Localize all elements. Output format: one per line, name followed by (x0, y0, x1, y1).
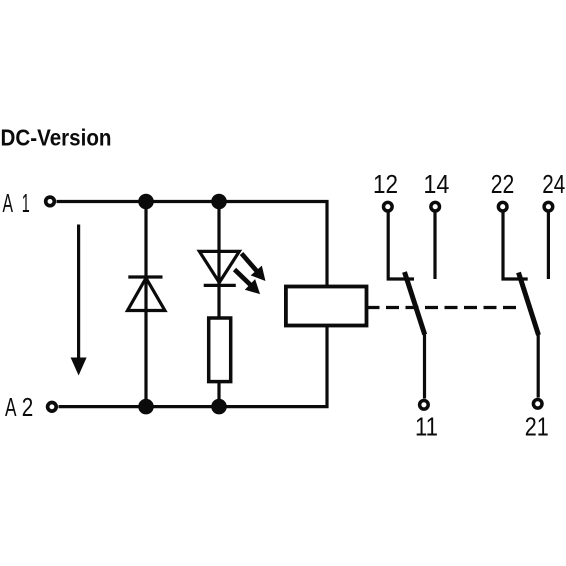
junction dot bottom-left (138, 399, 154, 415)
svg-text:21: 21 (525, 412, 549, 442)
svg-text:11: 11 (415, 412, 438, 442)
terminal 22 (498, 202, 507, 211)
contact blade 1 (405, 272, 425, 335)
terminal A2 (48, 403, 57, 412)
svg-text:A: A (3, 188, 14, 218)
relay coil K1 (286, 287, 367, 326)
terminal 11 (420, 401, 429, 410)
contact blade 2 (519, 273, 539, 336)
diode V1 cathode bar (128, 275, 162, 278)
dashed actuation link (367, 306, 518, 309)
junction dot top-left (138, 194, 154, 210)
LED cathode bar (204, 284, 236, 287)
wire diode branch (144, 202, 147, 407)
svg-text:12: 12 (373, 169, 398, 199)
diode V1 triangle (128, 278, 165, 311)
terminal 12 (384, 202, 393, 211)
resistor R1 (209, 318, 231, 382)
svg-text:22: 22 (491, 169, 515, 199)
terminal 24 (544, 202, 553, 211)
terminal A1 (46, 197, 55, 206)
svg-text:A: A (5, 392, 17, 422)
wire contact 21 (537, 334, 540, 398)
terminal 14 (431, 202, 440, 211)
wire contact 24 (547, 213, 550, 280)
LED triangle (199, 251, 239, 282)
wire contact 11 (423, 333, 426, 399)
wire LED branch upper (217, 202, 220, 319)
polarity arrow (71, 225, 87, 376)
wire contact 22 (503, 213, 528, 280)
wire top rail A1 (57, 202, 328, 287)
svg-text:2: 2 (22, 392, 34, 422)
wire bottom rail A2 (59, 326, 328, 407)
wire contact 14 (433, 213, 436, 280)
junction dot bottom-right (211, 399, 227, 415)
svg-text:24: 24 (542, 169, 565, 199)
svg-text:DC-Version: DC-Version (1, 125, 112, 151)
svg-text:14: 14 (423, 169, 449, 199)
LED emission arrow lower (229, 264, 265, 299)
svg-text:1: 1 (22, 188, 30, 218)
LED emission arrow upper (236, 249, 271, 286)
wire contact 12 (388, 213, 414, 280)
junction dot top-right (211, 194, 227, 210)
wire LED branch lower (217, 382, 220, 407)
terminal 21 (533, 400, 542, 409)
